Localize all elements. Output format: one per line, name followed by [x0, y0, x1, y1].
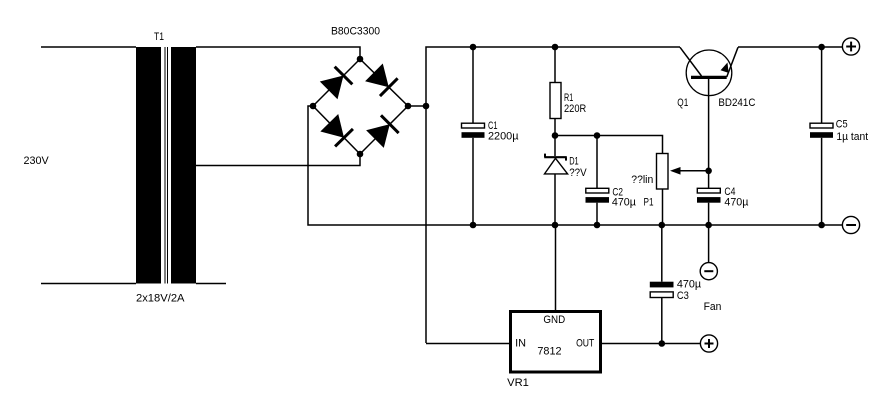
node P1 C3 rail [659, 222, 666, 229]
capacitor C5 [810, 47, 833, 225]
wire primary top [41, 46, 136, 48]
transformer T1 primary winding bar [136, 47, 161, 284]
wire bridge minus output to bottom rail [308, 106, 842, 225]
svg-text:Fan: Fan [704, 301, 722, 313]
svg-text:D1: D1 [569, 156, 579, 168]
capacitor C1 [462, 47, 485, 225]
node C2 bottom rail [594, 222, 601, 229]
node C1 bottom rail [470, 222, 477, 229]
terminal fan plus [700, 335, 717, 352]
node raw DC tee [423, 103, 430, 110]
wire regulator IN [426, 343, 511, 345]
bridge rectifier B80C3300 edges [313, 59, 408, 154]
node bridge top [357, 56, 364, 63]
node R1 top [552, 44, 559, 51]
svg-text:C5: C5 [836, 119, 848, 131]
wire secondary top to bridge [196, 47, 360, 59]
wire fan minus drop [708, 225, 710, 263]
node D1 bottom rail [552, 222, 559, 229]
node C1 top [470, 44, 477, 51]
node C3 out [659, 340, 666, 347]
node bridge left [310, 103, 317, 110]
bridge diode top-right [365, 64, 398, 97]
wire R1 bottom junction to P1 top [555, 136, 663, 154]
node C5 top [818, 44, 825, 51]
capacitor C4 [697, 171, 721, 225]
bridge diode top-left [320, 67, 353, 100]
wire bridge plus output stub [408, 105, 426, 107]
transformer T1 secondary winding bar [171, 47, 196, 284]
terminal fan minus [700, 263, 717, 280]
resistor R1 [550, 47, 561, 136]
node C5 bottom rail [818, 222, 825, 229]
svg-text:7812: 7812 [537, 346, 561, 358]
svg-text:??V: ??V [569, 167, 587, 179]
bridge diode bottom-right [366, 115, 399, 148]
svg-text:??lin: ??lin [631, 174, 653, 186]
node base wiper C4 [705, 168, 712, 175]
capacitor C2 [586, 136, 610, 226]
wire emitter rail to plus terminal [738, 46, 842, 48]
terminal output plus [842, 38, 859, 55]
svg-text:GND: GND [543, 314, 565, 326]
node C2 top [594, 132, 601, 139]
svg-text:P1: P1 [644, 197, 654, 209]
svg-text:VR1: VR1 [507, 377, 529, 389]
node R1 bottom D1 top [552, 132, 559, 139]
node bridge right [405, 103, 412, 110]
svg-text:T1: T1 [154, 31, 164, 43]
potentiometer P1 [657, 154, 709, 226]
svg-text:IN: IN [515, 338, 526, 350]
wire OUT to fan plus [601, 343, 701, 345]
transformer T1 core lines [165, 47, 169, 284]
bridge diode bottom-left [320, 114, 353, 146]
node C4 fan rail [705, 222, 712, 229]
wire secondary bottom stub [196, 283, 226, 285]
svg-text:470µ: 470µ [612, 197, 637, 209]
capacitor C3 [650, 225, 674, 344]
svg-text:230V: 230V [24, 155, 50, 167]
svg-text:470µ: 470µ [677, 279, 702, 291]
wire primary bottom [41, 283, 136, 285]
svg-text:B80C3300: B80C3300 [331, 26, 380, 38]
terminal output minus [842, 216, 859, 233]
svg-text:OUT: OUT [576, 338, 594, 350]
regulator VR1 7812 box [511, 312, 601, 373]
wire raw DC vertical and top rail left segment [426, 47, 680, 343]
svg-text:470µ: 470µ [724, 197, 749, 209]
svg-text:2x18V/2A: 2x18V/2A [136, 293, 185, 305]
svg-text:C3: C3 [677, 290, 689, 302]
transistor Q1 [680, 47, 738, 171]
svg-text:Q1: Q1 [677, 97, 688, 109]
svg-text:220R: 220R [564, 103, 586, 115]
svg-text:1µ tant: 1µ tant [836, 131, 868, 143]
node bridge bottom [357, 151, 364, 158]
svg-text:BD241C: BD241C [718, 97, 755, 109]
zener diode D1 [544, 136, 567, 226]
svg-text:2200µ: 2200µ [488, 131, 519, 143]
wire GND pin [555, 225, 557, 312]
wire secondary center tap to bridge bottom [196, 154, 360, 166]
